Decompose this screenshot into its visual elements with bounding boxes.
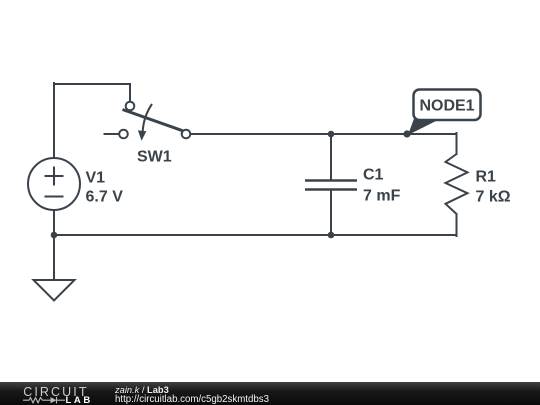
wire top horizontal segment V1 to switch <box>54 83 130 85</box>
wire R1 top lead <box>456 133 458 154</box>
wire C1 top lead <box>330 134 332 180</box>
wire drop to switch pivot <box>129 84 131 102</box>
wire bottom net horizontal <box>54 234 457 236</box>
junction dot at ground node <box>51 232 58 239</box>
svg-text:V1: V1 <box>86 170 106 187</box>
node NODE1 callout <box>403 90 480 138</box>
svg-text:SW1: SW1 <box>137 149 172 166</box>
voltage source V1 <box>28 158 80 210</box>
svg-text:C1: C1 <box>363 167 384 184</box>
junction dot at C1 top <box>328 131 335 138</box>
CircuitLab logo <box>20 384 100 405</box>
svg-text:R1: R1 <box>476 169 497 186</box>
junction dot at C1 bottom <box>328 232 335 239</box>
wire R1 bottom lead <box>456 214 458 236</box>
capacitor C1 <box>305 181 357 190</box>
resistor R1 <box>446 154 468 214</box>
wire ground lead <box>53 235 55 280</box>
wire switch right contact to top-right corner <box>191 133 457 135</box>
footer bar <box>0 382 540 405</box>
ground <box>34 280 75 301</box>
wire switch left stub <box>104 133 120 135</box>
credit line <box>115 385 169 395</box>
svg-text:LAB: LAB <box>66 395 93 405</box>
svg-text:7 kΩ: 7 kΩ <box>476 189 511 206</box>
wire C1 bottom lead <box>330 190 332 236</box>
url line <box>115 395 269 405</box>
svg-text:NODE1: NODE1 <box>419 98 474 115</box>
svg-text:7 mF: 7 mF <box>363 188 401 205</box>
switch SW1 <box>119 102 190 141</box>
wire V1 bottom lead <box>53 210 55 235</box>
svg-text:6.7 V: 6.7 V <box>86 189 124 206</box>
wire V1 top vertical segment <box>53 83 55 158</box>
